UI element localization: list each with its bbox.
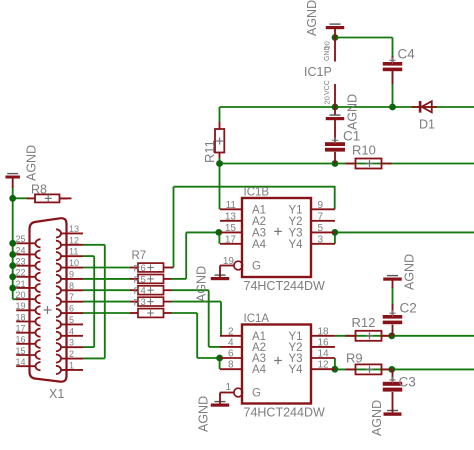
svg-text:9: 9: [69, 269, 74, 279]
svg-text:A3: A3: [252, 353, 266, 365]
svg-text:Y4: Y4: [289, 364, 304, 376]
svg-text:20: 20: [16, 290, 26, 300]
svg-text:VCC: VCC: [324, 80, 331, 95]
svg-text:C3: C3: [399, 375, 416, 390]
svg-text:AGND: AGND: [346, 94, 360, 130]
svg-text:74HCT244DW: 74HCT244DW: [244, 406, 325, 420]
svg-text:P: P: [134, 286, 140, 297]
svg-text:A4: A4: [252, 239, 267, 251]
svg-text:14: 14: [318, 349, 330, 360]
svg-text:R7: R7: [132, 250, 147, 262]
svg-text:3: 3: [69, 338, 74, 348]
svg-text:8: 8: [69, 281, 74, 291]
svg-text:Y2: Y2: [289, 216, 303, 228]
svg-text:Y1: Y1: [289, 204, 303, 216]
svg-text:21: 21: [16, 279, 26, 289]
svg-text:R10: R10: [352, 143, 376, 158]
svg-text:18: 18: [16, 312, 26, 322]
svg-text:R9: R9: [346, 351, 363, 366]
svg-text:AGND: AGND: [403, 254, 417, 290]
svg-text:A4: A4: [252, 364, 267, 376]
svg-text:P: P: [134, 264, 140, 275]
svg-text:7: 7: [318, 211, 324, 222]
svg-text:13: 13: [225, 211, 237, 222]
svg-text:A3: A3: [252, 227, 266, 239]
svg-text:AGND: AGND: [370, 400, 384, 436]
svg-text:C2: C2: [400, 301, 417, 316]
svg-text:74HCT244DW: 74HCT244DW: [244, 279, 325, 293]
svg-text:7: 7: [69, 292, 74, 302]
svg-text:16: 16: [318, 337, 330, 348]
svg-text:11: 11: [69, 247, 78, 257]
svg-text:4: 4: [228, 337, 234, 348]
svg-text:Y4: Y4: [289, 239, 304, 251]
svg-text:12: 12: [69, 235, 79, 245]
svg-text:IC1A: IC1A: [244, 313, 270, 325]
svg-text:R11: R11: [202, 140, 217, 163]
svg-text:12: 12: [318, 360, 330, 371]
svg-text:5: 5: [318, 223, 324, 234]
svg-text:4: 4: [141, 286, 146, 297]
svg-text:16: 16: [16, 335, 26, 345]
svg-text:1: 1: [69, 360, 74, 370]
svg-text:15: 15: [225, 223, 237, 234]
svg-text:18: 18: [318, 326, 330, 337]
svg-text:5: 5: [141, 274, 146, 285]
svg-text:IC1B: IC1B: [244, 187, 270, 199]
svg-text:P: P: [134, 275, 140, 286]
svg-text:IC1P: IC1P: [304, 65, 332, 79]
svg-text:Y3: Y3: [289, 227, 303, 239]
svg-text:5: 5: [69, 315, 74, 325]
svg-text:G: G: [252, 388, 261, 400]
svg-text:Y3: Y3: [289, 353, 303, 365]
svg-text:11: 11: [226, 200, 237, 211]
svg-text:6: 6: [228, 349, 234, 360]
svg-text:6: 6: [69, 304, 74, 314]
svg-text:2: 2: [69, 349, 74, 359]
svg-text:14: 14: [16, 357, 26, 367]
svg-text:10: 10: [69, 258, 79, 268]
svg-text:25: 25: [16, 234, 26, 244]
svg-text:G: G: [252, 261, 261, 273]
svg-text:R12: R12: [352, 315, 376, 330]
svg-text:D1: D1: [419, 118, 435, 132]
svg-text:GND: GND: [324, 45, 331, 61]
svg-text:24: 24: [16, 245, 26, 255]
svg-text:17: 17: [225, 234, 237, 245]
svg-text:15: 15: [16, 346, 26, 356]
svg-text:P: P: [134, 298, 140, 309]
svg-text:1: 1: [225, 382, 231, 393]
svg-text:9: 9: [318, 200, 324, 211]
svg-text:AGND: AGND: [195, 266, 209, 302]
svg-text:3: 3: [318, 234, 324, 245]
svg-text:4: 4: [69, 326, 74, 336]
svg-text:AGND: AGND: [197, 396, 211, 432]
svg-text:23: 23: [16, 256, 26, 266]
svg-text:X1: X1: [49, 387, 64, 401]
svg-text:19: 19: [16, 301, 26, 311]
svg-text:8: 8: [228, 360, 234, 371]
svg-text:2: 2: [228, 326, 234, 337]
svg-text:C4: C4: [398, 47, 416, 62]
svg-text:A2: A2: [252, 216, 266, 228]
svg-text:3: 3: [141, 297, 146, 308]
svg-text:6: 6: [141, 263, 146, 274]
svg-text:AGND: AGND: [25, 145, 39, 181]
svg-text:19: 19: [223, 256, 235, 267]
svg-text:A1: A1: [252, 204, 266, 216]
svg-text:13: 13: [69, 224, 79, 234]
svg-text:22: 22: [16, 268, 26, 278]
svg-text:R8: R8: [31, 183, 47, 197]
svg-text:20: 20: [323, 96, 332, 104]
svg-text:AGND: AGND: [305, 0, 319, 36]
svg-text:17: 17: [16, 323, 26, 333]
